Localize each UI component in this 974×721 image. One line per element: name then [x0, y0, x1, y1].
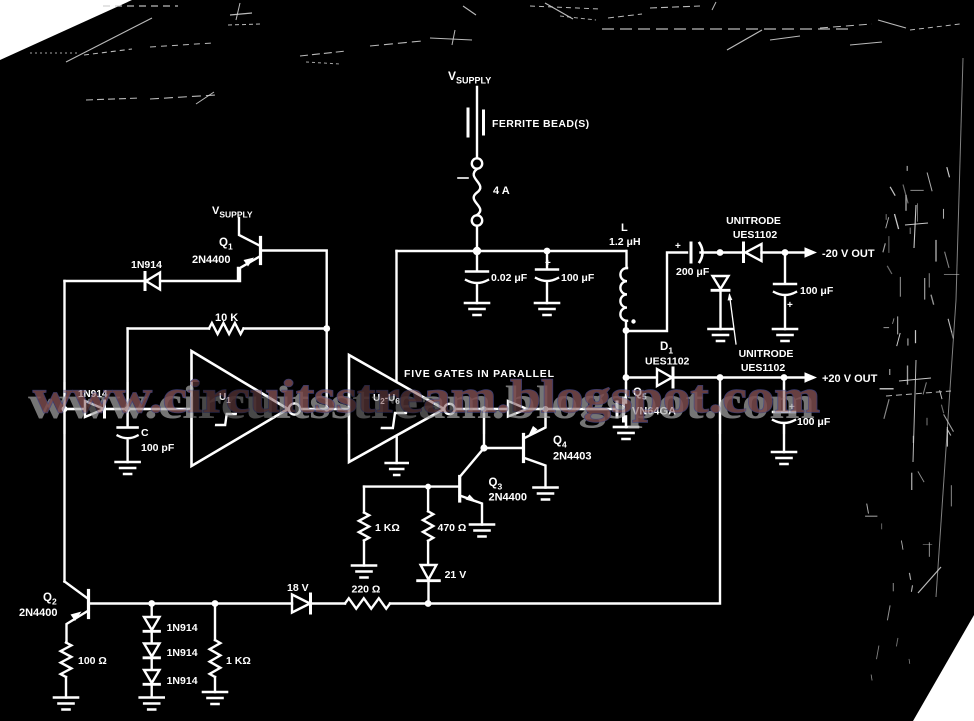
- svg-text:2N4400: 2N4400: [192, 254, 231, 266]
- svg-text:2N4400: 2N4400: [489, 492, 528, 504]
- svg-text:FERRITE BEAD(S): FERRITE BEAD(S): [492, 118, 590, 130]
- svg-text:2N4403: 2N4403: [553, 451, 592, 463]
- svg-text:100 μF: 100 μF: [800, 285, 834, 297]
- svg-text:18 V: 18 V: [287, 582, 309, 594]
- svg-text:1N914: 1N914: [167, 647, 198, 659]
- svg-text:100 pF: 100 pF: [141, 442, 175, 454]
- svg-text:L: L: [621, 222, 628, 234]
- svg-text:1 KΩ: 1 KΩ: [375, 522, 400, 534]
- svg-text:100 μF: 100 μF: [561, 272, 595, 284]
- svg-text:UNITRODE: UNITRODE: [739, 348, 794, 360]
- svg-text:1 KΩ: 1 KΩ: [226, 655, 251, 667]
- svg-text:+: +: [545, 258, 551, 269]
- svg-text:4 A: 4 A: [493, 185, 510, 197]
- svg-text:2N4400: 2N4400: [19, 607, 58, 619]
- svg-text:UES1102: UES1102: [645, 356, 690, 368]
- svg-text:220 Ω: 220 Ω: [352, 584, 381, 596]
- svg-text:470 Ω: 470 Ω: [438, 522, 467, 534]
- svg-text:1N914: 1N914: [167, 675, 198, 687]
- svg-text:1N914: 1N914: [167, 622, 198, 634]
- svg-text:+: +: [787, 300, 793, 311]
- svg-text:200 μF: 200 μF: [676, 266, 710, 278]
- svg-text:100 Ω: 100 Ω: [78, 655, 107, 667]
- svg-text:UNITRODE: UNITRODE: [726, 215, 781, 227]
- svg-text:21 V: 21 V: [445, 569, 467, 581]
- svg-text:0.02 μF: 0.02 μF: [491, 272, 528, 284]
- svg-text:-20 V OUT: -20 V OUT: [822, 248, 875, 260]
- svg-text:1.2 μH: 1.2 μH: [609, 236, 641, 248]
- svg-text:10 K: 10 K: [215, 312, 238, 324]
- svg-text:1N914: 1N914: [131, 259, 162, 271]
- svg-text:+: +: [675, 241, 681, 252]
- svg-text:UES1102: UES1102: [733, 229, 778, 241]
